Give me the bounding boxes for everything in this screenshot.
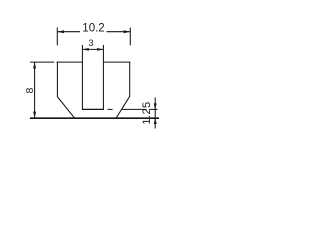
- dim 3: left arrowhead: [82, 48, 88, 51]
- slot bottom: [82, 108, 104, 110]
- svg-text:8: 8: [24, 88, 36, 94]
- dim 8: bottom arrowhead: [33, 112, 36, 118]
- dim 1.25: lower arrowhead (outside, pointing up): [154, 118, 157, 124]
- dim 8: top extension line: [30, 61, 54, 63]
- svg-text:10.2: 10.2: [82, 23, 104, 35]
- dim 10.2: right arrowhead: [124, 30, 131, 33]
- part outline: top edge left segment: [57, 61, 83, 63]
- dim 10.2: dimension line right part: [107, 31, 131, 33]
- dim 3: dimension line: [82, 48, 103, 50]
- dim 10.2: left extension line: [56, 28, 58, 46]
- dim 3: right arrowhead: [97, 48, 103, 51]
- dim 8: top arrowhead: [33, 62, 36, 68]
- dim 1.25: upper extension segments at slot-bottom level: [108, 108, 158, 110]
- part outline: left vertical edge: [56, 62, 58, 97]
- dim 10.2: right extension line: [129, 28, 131, 46]
- dim 10.2: left arrowhead: [57, 30, 64, 33]
- svg-text:3: 3: [88, 38, 93, 48]
- part outline: top edge right segment: [103, 61, 130, 63]
- svg-text:1.25: 1.25: [141, 101, 153, 124]
- technical drawing: grooved tooth profile with dimensions 10.2, 3, 8, 1.25: [0, 0, 191, 155]
- bottom edge / baseline (also extension line for 8 and 1.25): [30, 117, 159, 119]
- part outline: right chamfer: [116, 96, 130, 119]
- dim 1.25: upper arrowhead (outside, pointing down): [154, 103, 157, 109]
- dim 1.25: vertical dimension line: [154, 97, 156, 128]
- dim 8: vertical dimension line: [34, 62, 36, 118]
- slot left wall with extension up to 3-dimension: [81, 45, 83, 110]
- dim 10.2: dimension line left part: [57, 31, 80, 33]
- slot right wall with extension up to 3-dimension: [102, 45, 104, 110]
- part outline: right vertical edge: [129, 62, 131, 97]
- part outline: left chamfer: [57, 97, 74, 118]
